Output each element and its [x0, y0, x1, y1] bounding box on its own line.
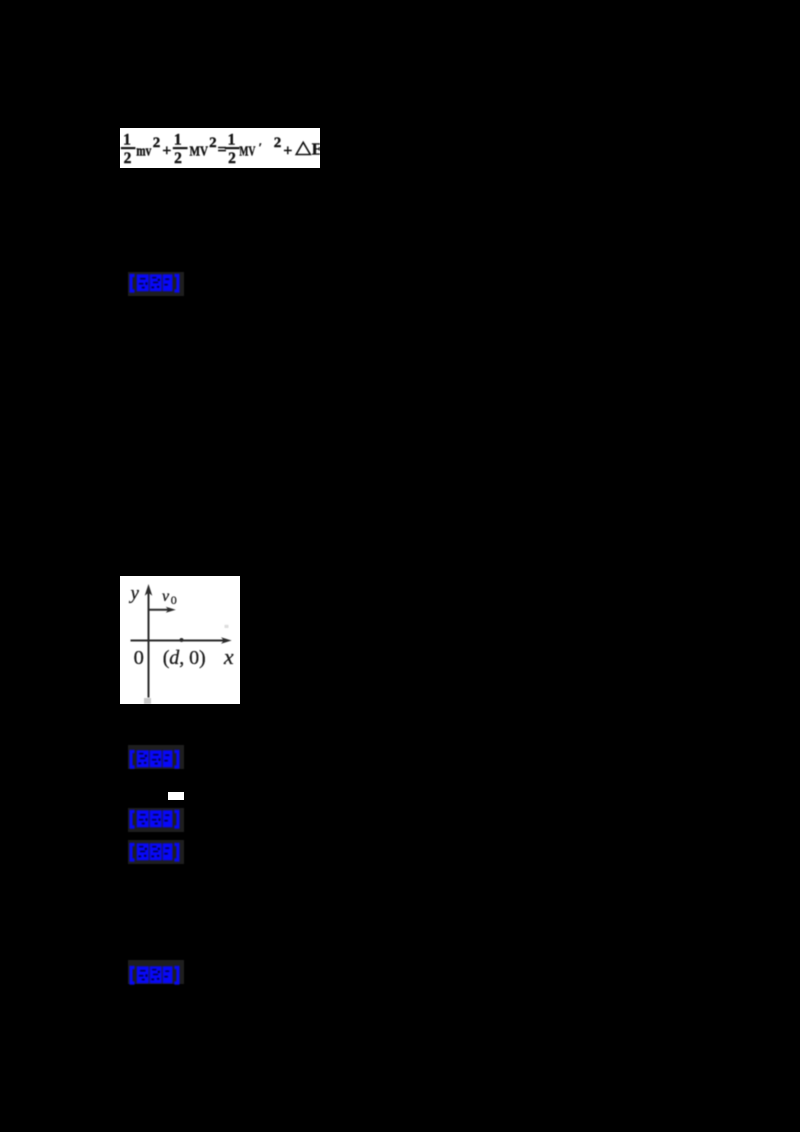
svg-text:MV: MV [190, 143, 209, 158]
svg-text:+: + [162, 142, 171, 159]
svg-text:1: 1 [123, 132, 131, 149]
blue label 3: zhuanti [128, 808, 184, 832]
blue label 5: jieda [128, 960, 184, 984]
svg-text:2: 2 [153, 135, 161, 151]
svg-text:mv: mv [136, 143, 151, 159]
svg-text:v: v [162, 588, 170, 605]
svg-text:E: E [312, 140, 320, 159]
v0 arrow [149, 609, 170, 611]
formula image: 1/2 mv^2 + 1/2 MV^2 = 1/2 MV'^2 + ΔE [120, 128, 320, 168]
diagram image: xy axes with v0 arrow and (d,0) point [120, 576, 240, 704]
svg-text:′: ′ [259, 140, 262, 154]
svg-text:x: x [223, 644, 234, 669]
svg-text:2: 2 [209, 135, 217, 151]
x-axis arrowhead [221, 637, 232, 643]
blue label 2: kaodian [128, 745, 185, 769]
svg-text:2: 2 [228, 150, 236, 167]
scan artifact right [225, 625, 229, 628]
svg-text:1: 1 [228, 132, 236, 149]
y-axis arrowhead [145, 584, 153, 596]
blue label 1: dianping [128, 272, 184, 297]
svg-text:MV: MV [239, 143, 255, 158]
svg-text:(d, 0): (d, 0) [163, 647, 206, 669]
svg-text:=: = [217, 142, 226, 159]
svg-text:1: 1 [174, 132, 182, 149]
blue label 4: fenxi [128, 840, 184, 864]
delta triangle [296, 142, 310, 154]
svg-text:y: y [129, 583, 140, 604]
point dot at (d,0) [180, 638, 184, 642]
svg-text:2: 2 [124, 150, 132, 167]
y-axis [148, 593, 150, 698]
tiny white inline image [168, 792, 184, 800]
scan artifact bottom [144, 698, 151, 704]
svg-text:2: 2 [274, 135, 282, 151]
svg-text:2: 2 [174, 150, 182, 167]
svg-text:0: 0 [134, 647, 144, 669]
svg-text:0: 0 [171, 593, 177, 607]
x-axis [131, 640, 226, 642]
svg-text:+: + [283, 142, 292, 159]
